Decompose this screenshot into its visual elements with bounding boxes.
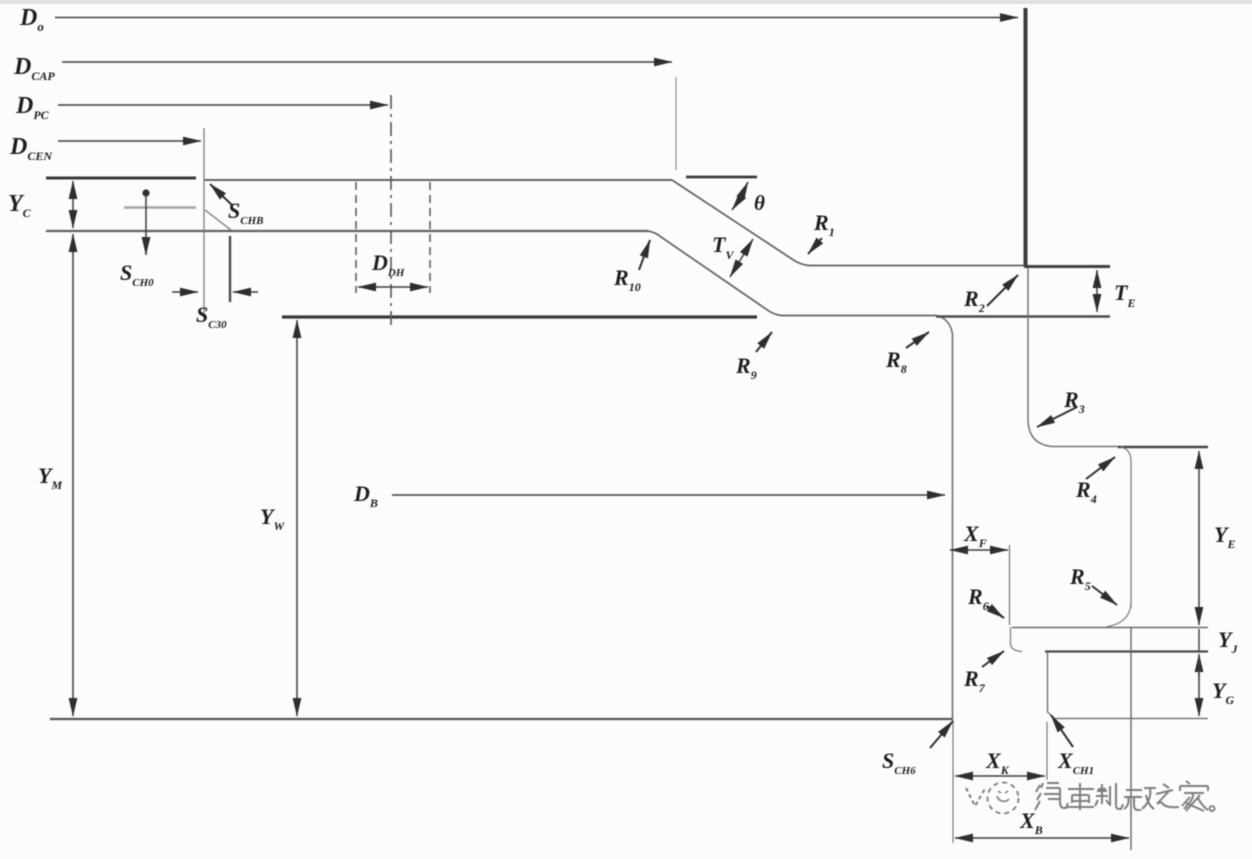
svg-text:YM: YM bbox=[38, 463, 62, 492]
wall at x1048 with X_CH chamfer bbox=[1048, 652, 1055, 718]
D_CEN extension bbox=[203, 128, 205, 320]
svg-text:R10: R10 bbox=[613, 265, 641, 294]
svg-text:DCEN: DCEN bbox=[9, 134, 53, 163]
chamfer hidden stub line bbox=[124, 206, 196, 208]
dimension Y_M bbox=[72, 234, 74, 716]
dimension D_PC bbox=[58, 104, 388, 106]
D_CAP extension bbox=[675, 77, 677, 170]
svg-text:R7: R7 bbox=[963, 666, 986, 695]
watermark period bbox=[1210, 806, 1215, 811]
outer diameter edge (thick vertical) bbox=[1024, 8, 1028, 266]
S_C30 extension (dark) bbox=[229, 236, 231, 302]
dimension S_C30 arrows bbox=[172, 291, 198, 293]
X_F extension bbox=[1009, 545, 1011, 625]
watermark check mark bbox=[966, 787, 986, 806]
dimension Y_E bbox=[1198, 451, 1200, 625]
theta datum line (thick) bbox=[686, 176, 757, 179]
svg-text:DDH: DDH bbox=[371, 250, 405, 279]
friction ring top edge bbox=[1024, 265, 1110, 268]
x=953 extension below bottom bbox=[952, 719, 954, 843]
leader R1 bbox=[808, 238, 822, 254]
svg-text:SCH0: SCH0 bbox=[120, 260, 154, 289]
watermark char 4 dong bbox=[1124, 788, 1156, 810]
svg-text:R8: R8 bbox=[885, 347, 907, 376]
svg-text:YC: YC bbox=[8, 191, 32, 220]
svg-text:R3: R3 bbox=[1063, 387, 1085, 416]
step top surface gray part bbox=[1052, 446, 1118, 448]
svg-text:DB: DB bbox=[353, 481, 378, 510]
watermark char 3 zhi bbox=[1095, 783, 1123, 809]
dimension Y_W bbox=[296, 320, 298, 716]
lower cone diagonal with R10 and R9 bends bbox=[648, 231, 936, 316]
R8 corner into inner wall bbox=[936, 316, 953, 719]
step top edge dark part bbox=[1118, 446, 1208, 449]
step face R6/R7 bbox=[1011, 627, 1023, 652]
bottom edge right extension bbox=[1054, 718, 1208, 720]
leader R9 bbox=[756, 332, 772, 352]
svg-text:θ: θ bbox=[754, 191, 765, 215]
dimension D_B bbox=[392, 494, 945, 496]
leader S_CHB bbox=[210, 184, 233, 206]
wall under flange bbox=[1027, 268, 1029, 419]
svg-text:SC30: SC30 bbox=[196, 302, 227, 331]
leader R5 bbox=[1092, 586, 1117, 605]
dimension Y_J lower outside arrow bbox=[1198, 654, 1200, 676]
leader R2 bbox=[987, 275, 1018, 306]
dimension Y_G bbox=[1198, 656, 1200, 716]
svg-text:DCAP: DCAP bbox=[13, 54, 55, 83]
cap top surface bbox=[204, 179, 672, 181]
dimension T_E bbox=[1096, 270, 1098, 312]
friction ring bottom surface bbox=[936, 315, 1110, 317]
drive hole dashed line left bbox=[355, 182, 357, 293]
dimension T_V bbox=[730, 239, 753, 277]
svg-text:TV: TV bbox=[712, 232, 734, 262]
hub chamfer diagonal bbox=[205, 210, 231, 230]
watermark char 1 qi bbox=[1035, 783, 1068, 810]
leader R6 bbox=[987, 606, 1004, 618]
leader R8 bbox=[906, 332, 929, 348]
R4 corner and outer step vertical face bbox=[1121, 447, 1131, 608]
bolt circle centerline dash-dot bbox=[390, 95, 392, 330]
svg-text:SCH6: SCH6 bbox=[882, 748, 916, 777]
watermark char 6 jia bbox=[1180, 781, 1208, 811]
svg-text:XF: XF bbox=[963, 521, 987, 550]
svg-text:R9: R9 bbox=[735, 353, 757, 382]
groove bottom surface bbox=[1012, 627, 1208, 629]
svg-text:R6: R6 bbox=[967, 584, 989, 613]
x=1131 extension bbox=[1130, 627, 1132, 850]
svg-text:XCH1: XCH1 bbox=[1057, 748, 1094, 777]
leader R7 bbox=[982, 651, 1004, 667]
bottom mounting face bbox=[50, 718, 953, 720]
watermark char 5 zhi2 bbox=[1156, 784, 1179, 807]
leader S_CH6 bbox=[930, 721, 953, 748]
dimension Y_J shaft bbox=[1198, 629, 1200, 651]
R5 fillet bbox=[1106, 604, 1131, 627]
dimension D_DH bbox=[358, 286, 428, 288]
lower step surface bbox=[1045, 650, 1208, 652]
svg-text:SCHB: SCHB bbox=[228, 198, 263, 227]
dimension D_CAP bbox=[62, 61, 672, 63]
drive hole dashed line right bbox=[429, 182, 431, 293]
svg-text:R5: R5 bbox=[1069, 564, 1091, 593]
dimension D_CEN bbox=[58, 140, 201, 142]
svg-text:DPC: DPC bbox=[15, 93, 50, 122]
x=1047 extension bbox=[1046, 722, 1048, 780]
leader R10 bbox=[639, 240, 650, 270]
svg-text:Do: Do bbox=[19, 5, 44, 34]
dimension X_K bbox=[955, 775, 1045, 777]
inner cheek top surface (thick) bbox=[282, 315, 757, 318]
leader X_CH1 bbox=[1051, 715, 1073, 747]
WATERMARK bbox=[966, 781, 1215, 814]
upper cone diagonal to cap right horizontal bbox=[672, 180, 1024, 266]
dimension Y_C bbox=[72, 181, 74, 228]
watermark circle logo bbox=[988, 783, 1019, 814]
leader R4 bbox=[1086, 457, 1115, 479]
watermark char 2 che bbox=[1066, 783, 1094, 810]
dimension angle theta arc bbox=[732, 182, 748, 210]
svg-text:YJ: YJ bbox=[1218, 627, 1238, 656]
svg-text:R4: R4 bbox=[1075, 477, 1097, 506]
dimension X_B bbox=[955, 837, 1129, 839]
svg-text:YE: YE bbox=[1214, 522, 1235, 551]
dimension S_CH0 pointer bbox=[142, 189, 149, 196]
R3 fillet bbox=[1028, 419, 1052, 447]
svg-text:TE: TE bbox=[1114, 280, 1135, 310]
scan edge strip top bbox=[0, 0, 1252, 4]
hub pad top surface (thick) bbox=[46, 177, 196, 180]
svg-text:YW: YW bbox=[260, 504, 285, 533]
dimension X_F bbox=[950, 549, 1008, 551]
svg-text:XK: XK bbox=[985, 748, 1010, 777]
svg-text:YG: YG bbox=[1212, 678, 1234, 707]
svg-text:R1: R1 bbox=[813, 210, 835, 239]
hub underside line bbox=[46, 230, 648, 232]
leader R3 bbox=[1037, 407, 1077, 427]
dimension D_o bbox=[55, 17, 1018, 19]
svg-text:XB: XB bbox=[1019, 808, 1043, 837]
svg-text:R2: R2 bbox=[963, 286, 985, 315]
